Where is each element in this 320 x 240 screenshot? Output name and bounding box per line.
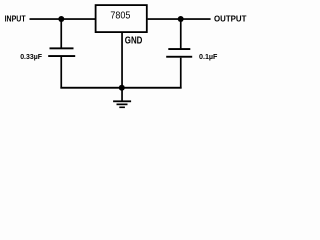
ground symbol [113, 88, 131, 108]
svg-text:OUTPUT: OUTPUT [214, 14, 247, 24]
capacitor C2 0.1uF [166, 48, 192, 58]
node ground junction [119, 85, 125, 91]
node output junction [178, 16, 184, 22]
svg-text:0.33µF: 0.33µF [20, 52, 42, 61]
wire output node to C2 [180, 19, 182, 49]
wire C1 to ground rail [60, 57, 62, 89]
wire GND pin of U1 [121, 32, 123, 88]
regulator U1 7805 [96, 5, 147, 32]
wire input node to C1 [60, 19, 62, 49]
wire C2 to ground rail [180, 58, 182, 89]
svg-text:INPUT: INPUT [5, 14, 27, 24]
wire input rail [30, 18, 96, 20]
svg-text:7805: 7805 [110, 11, 130, 22]
wire output rail [148, 18, 211, 20]
svg-text:0.1µF: 0.1µF [199, 52, 218, 61]
node input junction [58, 16, 64, 22]
svg-text:GND: GND [125, 36, 143, 47]
wire ground rail [60, 87, 181, 89]
capacitor C1 0.33uF [48, 47, 75, 57]
